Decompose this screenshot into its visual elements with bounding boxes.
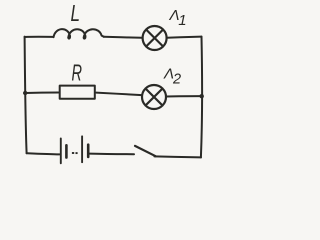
svg-text:R: R bbox=[72, 60, 83, 86]
svg-text:2: 2 bbox=[172, 72, 181, 88]
svg-text:1: 1 bbox=[178, 12, 186, 29]
svg-text:L: L bbox=[71, 0, 81, 26]
